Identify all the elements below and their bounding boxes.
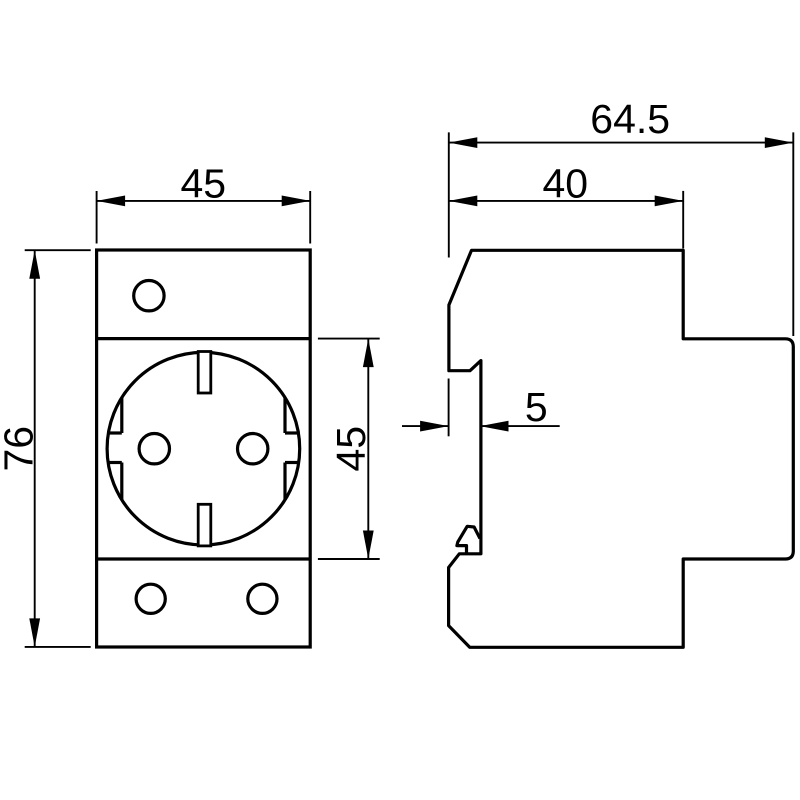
front view body outline bbox=[97, 250, 311, 647]
front view bottom divider line bbox=[97, 557, 311, 560]
dimension 76: extension lines bbox=[25, 249, 91, 251]
dimension 40: dimension line bbox=[449, 200, 683, 202]
dimension 45 top: extension lines bbox=[96, 191, 98, 244]
dimension 45 top: left arrowhead bbox=[97, 196, 126, 207]
side view profile outline bbox=[449, 250, 794, 647]
dimension 5: right lead line bbox=[480, 425, 560, 427]
svg-text:40: 40 bbox=[542, 161, 588, 207]
socket recess circle bbox=[107, 352, 300, 545]
bottom-left mounting hole bbox=[136, 584, 165, 613]
dimension 5: left lead line bbox=[402, 425, 449, 427]
svg-text:5: 5 bbox=[525, 384, 548, 430]
dimension 40: right arrowhead bbox=[655, 196, 684, 207]
DIN rail clip tab bbox=[457, 526, 480, 554]
dimension 45 right: top arrowhead bbox=[363, 339, 374, 368]
top mounting hole bbox=[134, 281, 164, 311]
dimension 5: extension line bbox=[448, 379, 450, 437]
dimension 64.5: extension lines bbox=[448, 132, 450, 257]
right pin hole bbox=[238, 434, 268, 464]
front view top divider line bbox=[97, 337, 311, 340]
dimension 45 top: right arrowhead bbox=[282, 196, 311, 207]
dimension 76: top arrowhead bbox=[29, 250, 40, 279]
svg-text:45: 45 bbox=[328, 426, 374, 472]
bottom earth slot bbox=[198, 504, 211, 546]
dimension 5: left arrowhead (pointing right) bbox=[420, 421, 449, 432]
dimension 45 right: dimension line bbox=[367, 339, 369, 559]
right side notch bbox=[285, 398, 300, 501]
dimension 45 top: dimension line bbox=[97, 200, 311, 202]
dimension 45 right: bottom arrowhead bbox=[363, 531, 374, 560]
dimension 45 right: extension lines bbox=[318, 338, 380, 340]
dimension 40: extension line bbox=[682, 191, 684, 249]
dimension 5: right arrowhead (pointing left) bbox=[480, 421, 509, 432]
left pin hole bbox=[139, 434, 169, 464]
dimension 76: bottom arrowhead bbox=[29, 618, 40, 647]
svg-text:64.5: 64.5 bbox=[590, 96, 670, 142]
dimension 76: dimension line bbox=[34, 250, 36, 647]
dimension 64.5: right arrowhead bbox=[765, 137, 794, 148]
dimension 64.5: dimension line bbox=[449, 142, 794, 144]
dimension 64.5: left arrowhead bbox=[449, 137, 478, 148]
top earth slot bbox=[198, 352, 211, 394]
dimension 40: left arrowhead bbox=[449, 196, 478, 207]
bottom-right mounting hole bbox=[248, 584, 277, 613]
left side notch bbox=[107, 398, 122, 501]
svg-text:76: 76 bbox=[0, 426, 41, 472]
svg-text:45: 45 bbox=[180, 160, 226, 206]
